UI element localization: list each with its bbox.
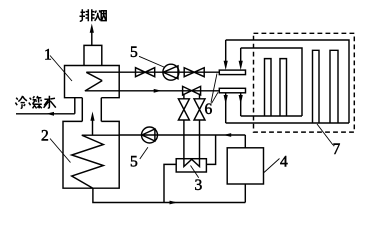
svg-text:6: 6 xyxy=(205,101,213,118)
exchanger 3 internal pipes xyxy=(184,159,200,167)
leader for label 1 xyxy=(50,56,72,82)
duct flow arrow xyxy=(92,119,94,135)
pipe H3 (inner supply) xyxy=(241,115,302,117)
svg-text:1: 1 xyxy=(44,46,52,63)
leader for label 7 xyxy=(317,124,333,145)
排 char xyxy=(80,9,86,21)
flow arrow on return line (pointing right) xyxy=(170,201,178,205)
bottom return line xyxy=(93,188,245,202)
manifold bar1 (return header) xyxy=(219,70,245,75)
pump line from box2 to box4 xyxy=(119,134,245,136)
pipe H1 (top return) xyxy=(226,40,349,123)
pump P2 impeller triangle xyxy=(142,129,155,141)
flue duct between box1 and box2 xyxy=(82,98,101,122)
flow arrow on line2 (pointing right) xyxy=(154,89,162,93)
condensate arrow xyxy=(46,112,54,116)
svg-text:7: 7 xyxy=(333,141,341,158)
chimney xyxy=(84,45,102,65)
leader for label 3 xyxy=(191,166,199,178)
dashed room boundary box 7 xyxy=(254,33,355,132)
coil in box2 xyxy=(72,135,120,188)
three-way valve B hourglass xyxy=(194,99,205,120)
label 排烟 (exhaust flue gas text) xyxy=(80,9,107,21)
leader for lower 5 xyxy=(140,147,148,159)
flue exhaust arrow xyxy=(91,32,93,46)
label 冷凝水 (condensate water text) xyxy=(15,96,55,109)
pipe H4 (outer supply) xyxy=(226,122,349,124)
box4 boiler xyxy=(227,148,263,184)
valve on line2 (bowtie) xyxy=(183,86,201,95)
svg-text:2: 2 xyxy=(41,127,49,144)
flow arrow on pump line (pointing left) xyxy=(223,133,231,137)
line2: coil bottom line to manifold xyxy=(85,90,219,92)
three-way valve B stem xyxy=(199,94,201,159)
pipe H2 (second return) xyxy=(241,48,302,116)
box1 flue-gas condensing heat exchanger xyxy=(65,66,120,98)
凝 char xyxy=(29,98,31,106)
svg-text:3: 3 xyxy=(195,177,203,194)
box4 bottom pipe xyxy=(244,184,246,203)
烟 char xyxy=(95,10,101,20)
leaders for label 6 xyxy=(211,74,218,104)
manifold bar2 (supply header) xyxy=(219,88,245,93)
floor coil left teeth xyxy=(265,59,287,116)
three-way valve A stem xyxy=(183,94,185,159)
line1: coil top supply line to manifold xyxy=(86,71,219,73)
leader for label 2 xyxy=(50,139,71,163)
pump P1 circle xyxy=(163,64,179,80)
svg-text:4: 4 xyxy=(280,153,288,170)
leader for label 4 xyxy=(264,159,280,173)
水 char xyxy=(44,96,56,108)
riser from H2 to bar1 xyxy=(240,48,242,64)
exchanger 3 left stub and drop xyxy=(164,164,176,202)
riser from bar2 to H3 xyxy=(240,93,242,116)
three-way valve A hourglass xyxy=(178,99,189,120)
冷 char xyxy=(15,98,17,106)
leader for upper 5 xyxy=(139,56,165,67)
box2 lower heat exchanger xyxy=(63,121,119,188)
coil in box1 xyxy=(85,72,102,91)
riser from bar2 to H4 xyxy=(225,93,227,123)
condensate drain line xyxy=(16,98,75,114)
valve V2 on line1 xyxy=(184,68,204,77)
riser from H1 to bar1 xyxy=(225,40,227,64)
pump P1 impeller triangle xyxy=(163,66,178,79)
drop from pump line into box4 xyxy=(244,135,246,148)
valve V1 on line1 xyxy=(136,68,155,77)
svg-text:5: 5 xyxy=(130,153,138,170)
heat exchanger 3 box xyxy=(176,159,206,172)
floor coil right teeth xyxy=(313,50,339,123)
pump P2 circle xyxy=(142,127,158,143)
exchanger 3 right stub and riser xyxy=(206,135,215,164)
svg-text:5: 5 xyxy=(130,44,138,61)
